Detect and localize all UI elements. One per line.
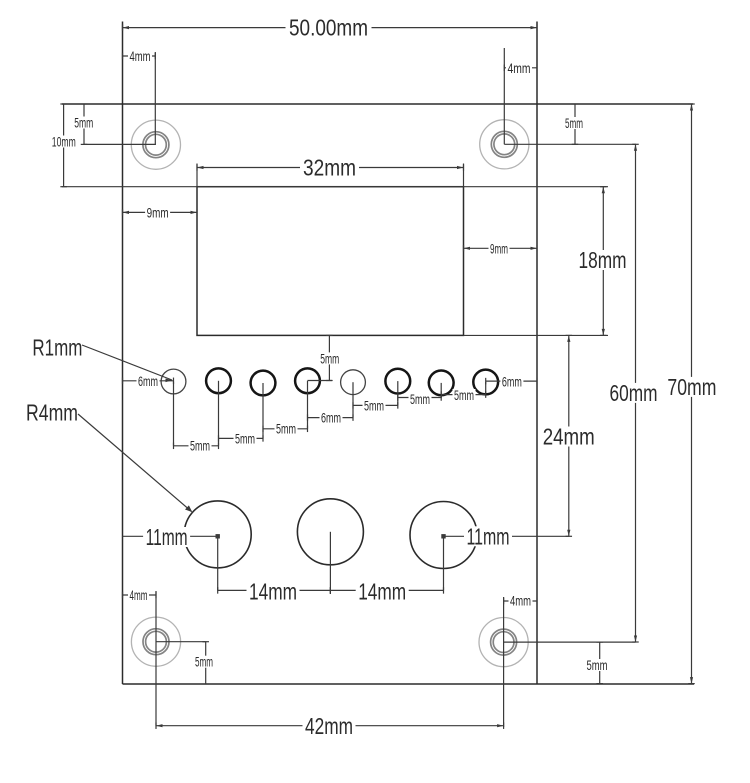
svg-text:5mm: 5mm (195, 654, 213, 670)
centre mark knob K1 (216, 534, 220, 538)
svg-text:5mm: 5mm (276, 421, 296, 437)
dimension 32mm display width (197, 155, 464, 181)
svg-text:50.00mm: 50.00mm (289, 15, 368, 41)
svg-text:18mm: 18mm (579, 247, 627, 273)
extension line from hole H7 centre down (440, 383, 442, 398)
extension line knob K1 centre down (217, 534, 219, 590)
extension line from hole H3 centre down (262, 383, 264, 438)
dimension 50.00mm overall width (123, 15, 538, 41)
small hole H2 (R1mm, bold) (206, 368, 231, 393)
extension line knob K3 centre down (443, 535, 445, 590)
board outline top edge (extended left and right) (62, 103, 693, 105)
svg-text:70mm: 70mm (667, 374, 716, 400)
svg-text:4mm: 4mm (130, 48, 151, 64)
extension line knob K2 centre down (329, 532, 331, 594)
board outline right edge (extended up to 50mm dimension) (536, 22, 538, 685)
bottom-right hole centre horizontal extension (to 60mm dim) (504, 641, 636, 643)
dimension 14mm (knob K2 to K3) (330, 578, 443, 604)
knob hole K3 (R4mm) (410, 502, 477, 569)
dimension 11mm right (knob K3 to 24mm line) (444, 523, 569, 549)
small hole H1 (R1mm, thin) (161, 369, 186, 394)
dimension 4mm top-right (504, 60, 537, 76)
dimension 4mm bottom-left (123, 587, 157, 603)
dimension 9mm right (display to board edge) (464, 240, 538, 256)
svg-text:4mm: 4mm (130, 587, 148, 603)
svg-text:R1mm: R1mm (32, 335, 82, 361)
svg-text:5mm: 5mm (364, 397, 384, 413)
dimension 70mm overall height (665, 104, 718, 684)
mounting hole bottom-left (pad + eyelet rings) (131, 617, 180, 666)
dimension 5mm hole pitch #5 (353, 397, 398, 413)
svg-text:11mm: 11mm (146, 524, 188, 550)
label R1mm with leader to hole H1 (32, 335, 172, 382)
dimension 14mm (knob K1 to K2) (218, 578, 331, 604)
svg-text:5mm: 5mm (320, 350, 339, 366)
mounting hole top-right (pad + eyelet rings) (480, 120, 529, 169)
dimension 24mm (display bottom to knob centres) (541, 335, 597, 536)
dimension 4mm top-left (123, 48, 156, 64)
extension tick above display left corner for 32mm dim (196, 164, 198, 187)
small hole H7 (R1mm, bold) (429, 371, 454, 396)
dimension 42mm (bottom hole centres) (156, 713, 504, 739)
extension line bottom-left hole centre vertical (4mm dim to 42mm dim) (155, 591, 157, 726)
extension line from top-right hole centre up to 4mm dim (503, 48, 505, 144)
small hole H6 (R1mm, bold) (385, 369, 410, 394)
mounting hole top-left (pad + eyelet rings) (131, 120, 180, 169)
knob hole K1 (R4mm) (184, 501, 251, 568)
extension line bottom-right hole centre vertical (4mm dim to 42mm dim) (503, 597, 505, 727)
svg-text:6mm: 6mm (138, 373, 158, 389)
dimension 5mm hole pitch #7 (441, 387, 486, 403)
svg-text:10mm: 10mm (52, 134, 76, 150)
extension line from hole H4 centre down (307, 381, 309, 429)
svg-text:5mm: 5mm (190, 438, 210, 454)
svg-text:24mm: 24mm (543, 424, 595, 450)
small hole H4 (R1mm, bold) (295, 368, 320, 393)
board outline left edge (extended up to 50mm dimension) (122, 22, 124, 685)
label R4mm with leader to knob K1 (26, 399, 192, 512)
dimension 5mm hole pitch #1 (174, 438, 219, 454)
svg-text:5mm: 5mm (454, 387, 474, 403)
mounting hole bottom-right (pad + eyelet rings) (479, 618, 528, 667)
small hole H5 (R1mm, thin) (341, 370, 366, 395)
dimension 5mm left (top edge to hole centre) (73, 104, 95, 144)
extension line from hole H6 centre down (397, 381, 399, 405)
dimension 10mm left (top edge to display top) (50, 104, 77, 187)
svg-text:4mm: 4mm (510, 593, 531, 609)
svg-text:4mm: 4mm (508, 60, 531, 76)
extension line from hole H2 centre down (218, 381, 220, 446)
dimension 6mm (hole H8 to board edge) (486, 373, 537, 389)
svg-text:60mm: 60mm (610, 380, 658, 406)
dimension 5mm hole pitch #3 (263, 421, 308, 437)
svg-text:5mm: 5mm (565, 115, 583, 131)
knob hole K2 (R4mm) (297, 499, 363, 565)
svg-text:9mm: 9mm (490, 240, 508, 256)
dimension 5mm hole pitch #2 (219, 430, 264, 446)
svg-text:5mm: 5mm (587, 657, 608, 673)
board outline bottom edge (extended right to 70mm dimension) (123, 683, 695, 685)
dimension 5mm (display bottom to hole row) (319, 335, 341, 380)
display bottom edge extension line (right to 18mm dim) (464, 334, 609, 336)
display top edge extension line (left to 10mm dim, right to 18mm dim) (62, 186, 608, 188)
extension line from hole H5 centre down (352, 382, 354, 417)
dimension 6mm hole pitch #4 (308, 409, 354, 425)
svg-text:5mm: 5mm (74, 115, 93, 131)
svg-text:14mm: 14mm (358, 578, 406, 604)
dimension 60mm (hole centre to hole centre) (608, 144, 660, 642)
svg-text:11mm: 11mm (467, 523, 510, 549)
svg-text:5mm: 5mm (235, 430, 255, 446)
svg-text:5mm: 5mm (410, 391, 430, 407)
dimension 9mm left (board edge to display) (123, 204, 198, 220)
svg-text:42mm: 42mm (305, 713, 353, 739)
svg-text:6mm: 6mm (321, 409, 341, 425)
extension line display right edge up to 32mm dim (463, 164, 465, 187)
dimension 5mm hole pitch #6 (398, 391, 441, 407)
display window rectangle (197, 187, 464, 336)
svg-text:6mm: 6mm (502, 373, 522, 389)
dimension 18mm display height (577, 187, 629, 336)
small hole H3 (R1mm, bold) (251, 371, 276, 396)
dimension 4mm bottom-right (504, 593, 537, 609)
dimension 5mm bottom-right (hole centre to bottom edge) (585, 642, 609, 684)
extension line from hole H8 centre down (485, 382, 487, 395)
extension line hole H4 centre to mid 5mm dim (308, 380, 333, 382)
top-right hole centre horizontal extension line (to 60mm dim) (504, 143, 636, 145)
svg-text:9mm: 9mm (147, 204, 169, 220)
dimension 5mm bottom-left (hole centre to bottom edge) (194, 642, 215, 684)
small hole H8 (R1mm, bold) (473, 370, 498, 395)
extension line from hole H1 centre down (173, 382, 175, 446)
svg-text:R4mm: R4mm (26, 399, 78, 425)
centre mark knob K3 (441, 534, 445, 538)
dimension 11mm left (board edge to knob K1) (123, 524, 218, 550)
extension line from top-left hole centre up to 4mm dim (154, 52, 156, 145)
top-left hole centre horizontal extension line (84, 143, 156, 145)
dimension 6mm (board edge to hole H1) (123, 373, 174, 389)
svg-text:14mm: 14mm (249, 578, 297, 604)
svg-text:32mm: 32mm (303, 155, 356, 181)
dimension 5mm right (top edge to hole centre) (564, 104, 585, 144)
bottom-left hole centre horizontal extension (156, 641, 206, 643)
